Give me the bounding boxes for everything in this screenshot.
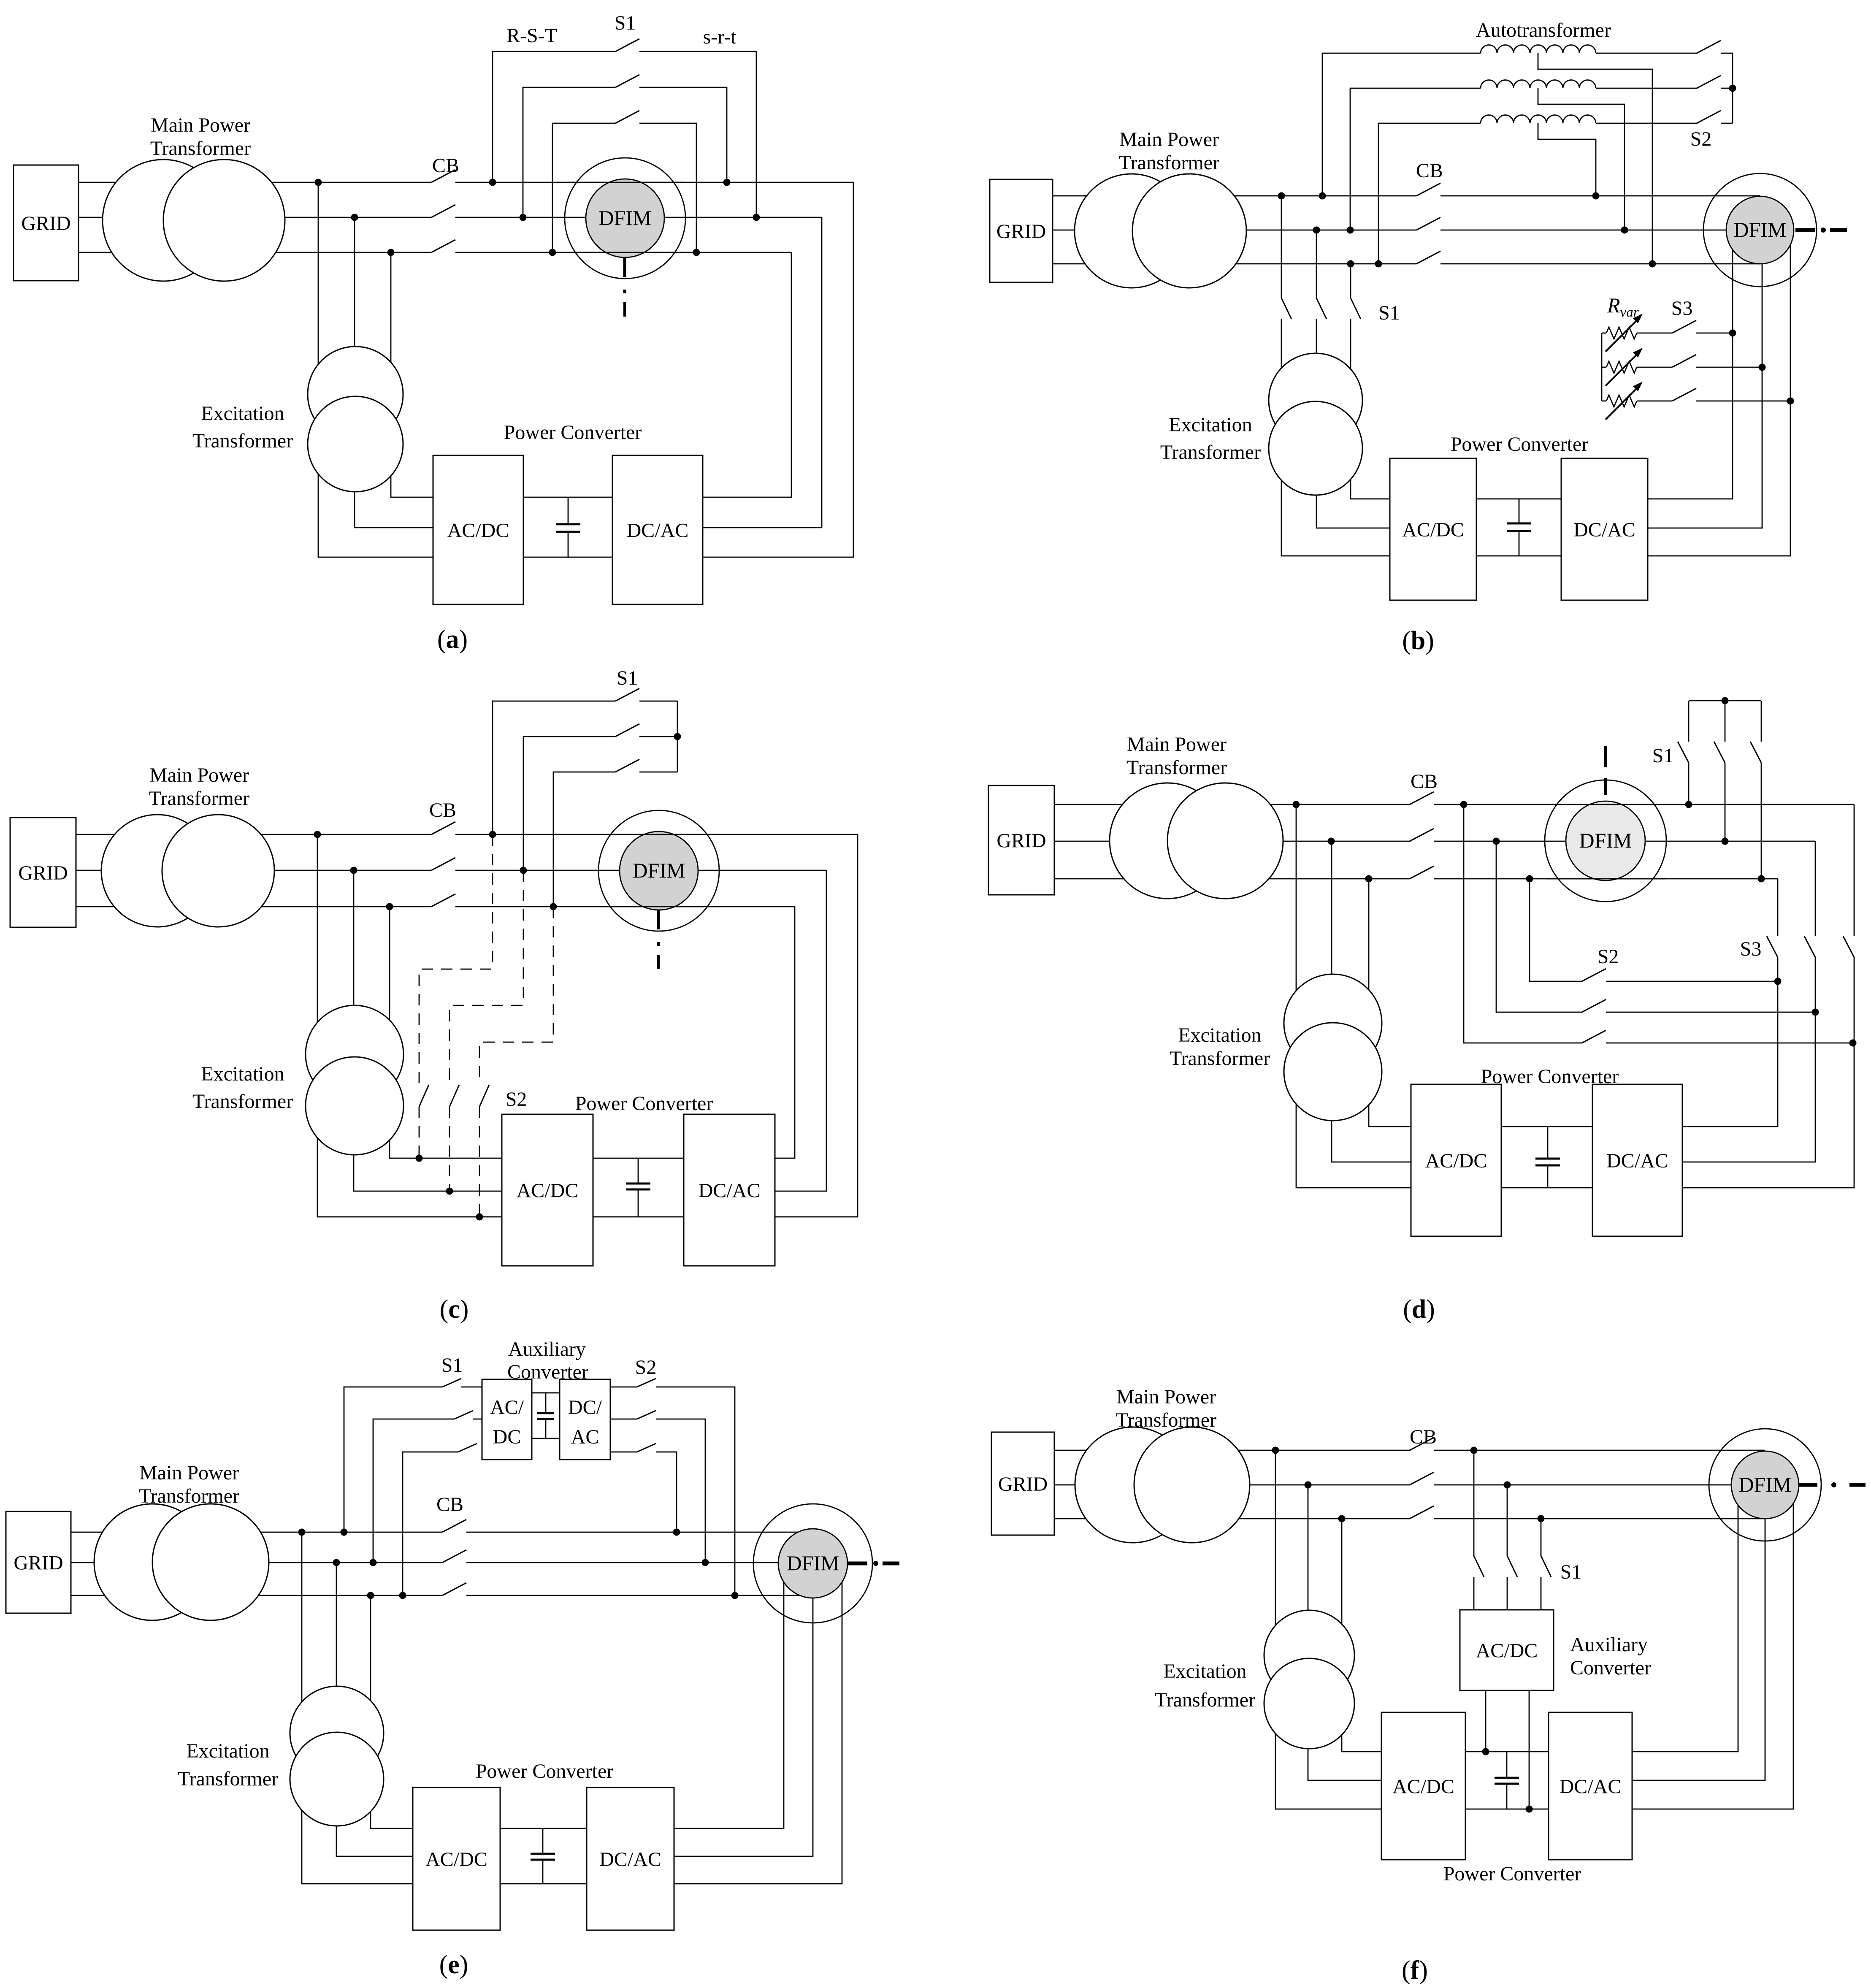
wire: S2 row3 from phase R (d)	[1464, 804, 1582, 1043]
wire: wrap lead phase R with switch S3 pole3 (d)	[1854, 804, 1855, 936]
svg-text:DC/AC: DC/AC	[1573, 519, 1635, 541]
node: w1 left on phase R (b)	[1319, 192, 1326, 200]
wire: bypass dashed phase T to S2 (c)	[479, 907, 553, 1085]
node: S1 row2 right on phase R (a)	[723, 179, 731, 186]
DFIM M-d rotor circle and shaft	[1566, 801, 1645, 880]
node: S2 pole2 on phase S (e)	[702, 1559, 709, 1566]
wire: bypass dashed pole1 to converter top input (c)	[419, 1107, 420, 1158]
svg-text:AC/DC: AC/DC	[1392, 1776, 1454, 1798]
svg-text:DC/AC: DC/AC	[699, 1180, 761, 1202]
DC-link capacitor (a)	[568, 497, 569, 524]
circuit breaker CB pole T (d)	[1410, 866, 1434, 879]
circuit breaker CB pole R (a)	[431, 170, 455, 182]
svg-text:Main Power: Main Power	[139, 1462, 239, 1484]
power converter DC/AC (b)	[1561, 458, 1648, 600]
node: S2 row1 left (d)	[1526, 875, 1533, 883]
node: tap3 on phase R (b)	[1592, 192, 1600, 200]
node: aux feed T (e)	[399, 1592, 406, 1599]
wire: rotor lead 2 (b)	[1648, 230, 1762, 528]
wire: excitation feeder T to AC/DC top input (a)	[391, 252, 433, 497]
wire: aux DC negative lead to DC bus (f)	[1529, 1690, 1530, 1809]
svg-text:S2: S2	[1598, 945, 1619, 968]
wire: S3 pole3 to rotor lead 3 (b)	[1696, 401, 1790, 402]
wire: aux feed phase R to S1 pole1 (e)	[344, 1387, 442, 1532]
wire: excitation feeder R down to AC/DC bottom input (e)	[302, 1532, 413, 1884]
svg-text:Main Power: Main Power	[1119, 128, 1219, 151]
switch S2 pole 2 (b)	[1697, 76, 1721, 88]
svg-text:DFIM: DFIM	[1738, 1473, 1791, 1496]
wire: w2 centre tap to phase S (b)	[1538, 88, 1625, 230]
wire: autotransformer w3 left lead to phase T (b)	[1378, 123, 1481, 264]
wire: excitation feeder T to AC/DC top input (e)	[371, 1595, 413, 1828]
wire: rotor lead 1 from DFIM to DC/AC (b)	[1648, 230, 1733, 499]
svg-text:S2: S2	[506, 1088, 527, 1110]
node: S1 row3 right on phase T (a)	[693, 249, 700, 256]
svg-text:CB: CB	[1411, 770, 1438, 793]
switch S3 pole 1 (b)	[1672, 320, 1696, 333]
wire: autotransformer w2 left lead to phase S (b)	[1350, 88, 1481, 230]
node: excitation tap phase T (e)	[367, 1592, 374, 1599]
switch S2 pole 3 (b)	[1697, 111, 1721, 123]
circuit breaker CB pole R (d)	[1410, 792, 1434, 804]
node: w2 left on phase S (b)	[1347, 227, 1354, 234]
auxiliary converter AC/DC (e)	[482, 1379, 532, 1460]
wire: DC bus top (d)	[1501, 1126, 1592, 1127]
wire: DC bus top (e)	[500, 1828, 587, 1829]
svg-text:Transformer: Transformer	[1119, 152, 1219, 174]
node: S1 row1 left on phase R (a)	[489, 179, 496, 186]
wire: DC bus bottom (b)	[1476, 555, 1561, 557]
node: excitation tap phase S (a)	[351, 214, 358, 221]
node: excitation tap phase R (f)	[1272, 1447, 1279, 1454]
main power transformer (a)	[103, 160, 224, 281]
wire: aux feed phase R with S1 pole1 (f)	[1473, 1450, 1475, 1556]
wire: w3 right lead (b)	[1596, 123, 1697, 124]
svg-text:S1: S1	[617, 667, 638, 689]
wire: rotor lead 3 (b)	[1648, 230, 1790, 556]
circuit breaker CB pole T (b)	[1416, 251, 1440, 264]
wire: S1 star bus (c)	[677, 701, 678, 772]
svg-text:AC/DC: AC/DC	[1425, 1150, 1487, 1172]
svg-text:Excitation: Excitation	[1169, 414, 1252, 436]
node: w3 left on phase T (b)	[1375, 260, 1382, 268]
svg-text:DFIM: DFIM	[598, 206, 651, 230]
node: excitation tap phase R (d)	[1293, 801, 1300, 808]
DFIM M-e rotor circle and shaft	[778, 1529, 848, 1598]
switch S1 pole 1 (d)	[1688, 701, 1690, 742]
wire: rotor lead 2 (f)	[1632, 1485, 1765, 1780]
svg-text:Excitation: Excitation	[1163, 1660, 1246, 1682]
svg-text:Main Power: Main Power	[149, 764, 249, 786]
wire: grid phase R (f)	[1054, 1450, 1410, 1451]
circuit breaker CB pole R (c)	[431, 822, 455, 834]
switch S2 pole 1 (b)	[1697, 41, 1721, 53]
svg-text:Auxiliary: Auxiliary	[1570, 1633, 1648, 1656]
node: bypass3 on converter input (c)	[476, 1213, 483, 1221]
wire: excitation feeder R down to AC/DC bottom input (a)	[318, 182, 433, 557]
GRID source (a)	[14, 165, 79, 281]
wire: rotor lead 1 from DFIM to DC/AC (a)	[703, 182, 853, 557]
auxiliary converter AC/DC box (f)	[1460, 1610, 1554, 1690]
svg-text:CB: CB	[436, 1493, 463, 1516]
subfigure (a): DFIM with stator phase-reversal switch S1	[0, 0, 0, 0]
svg-text:DFIM: DFIM	[1579, 829, 1632, 852]
svg-text:Transformer: Transformer	[192, 1090, 293, 1113]
node: S2 row2 right (d)	[1812, 1009, 1819, 1016]
wire: excitation feeder T to AC/DC top input (f)	[1342, 1519, 1381, 1752]
svg-text:Converter: Converter	[1570, 1657, 1651, 1679]
node: S1 row2 left on phase S (a)	[520, 214, 527, 221]
wire: w2 right lead (b)	[1596, 88, 1697, 89]
switch S3 pole 2 (b)	[1672, 355, 1696, 367]
wire: grid phase T (b)	[1053, 263, 1416, 265]
switch S1 pole 2 (c)	[523, 737, 615, 870]
wire: grid phase S (a)	[79, 217, 431, 218]
power converter AC/DC (e)	[413, 1788, 500, 1930]
svg-text:S1: S1	[615, 12, 636, 34]
svg-text:DFIM: DFIM	[632, 859, 685, 882]
circuit breaker CB pole S (d)	[1410, 829, 1434, 841]
circuit breaker CB pole S (a)	[431, 205, 455, 217]
svg-text:DC/AC: DC/AC	[599, 1848, 661, 1871]
wire: excitation feeder R with switch S1 pole1 (b)	[1281, 196, 1282, 298]
power converter DC/AC (f)	[1549, 1712, 1632, 1860]
excitation transformer (b)	[1269, 353, 1362, 447]
node: aux feed T (f)	[1538, 1515, 1545, 1522]
subfigure (e): DFIM with auxiliary converter starter S1/S2	[0, 0, 0, 0]
wire: bypass dashed phase S to S2 (c)	[449, 870, 523, 1085]
wire: excitation feeder R down to AC/DC bottom input (c)	[317, 834, 502, 1217]
variable rotor resistor Rvar phase 2 (b)	[1602, 367, 1606, 368]
DC-link capacitor (f)	[1506, 1752, 1508, 1778]
subfigure (b): DFIM with autotransformer starter	[0, 0, 0, 0]
wire: aux DC bus bottom (e)	[532, 1438, 560, 1439]
svg-text:Transformer: Transformer	[192, 430, 293, 452]
wire: aux output row3 with S2 pole3 to phase R (e)	[610, 1452, 637, 1453]
wire: S1 star bus (d)	[1689, 700, 1761, 701]
switch S1 pole 3 (d)	[1761, 701, 1762, 742]
wire: excitation feeder T to AC/DC top input (d)	[1369, 879, 1411, 1127]
node: excitation tap phase T (a)	[387, 249, 395, 256]
node: feeder S on phase S (b)	[1313, 227, 1320, 234]
DC-link capacitor (d)	[1547, 1127, 1549, 1159]
main power transformer (e)	[94, 1504, 211, 1620]
node: S2 row3 right (d)	[1849, 1040, 1857, 1047]
svg-text:AC/DC: AC/DC	[1476, 1640, 1538, 1662]
wire: aux DC positive lead to DC bus (f)	[1485, 1690, 1487, 1752]
svg-text:DFIM: DFIM	[786, 1551, 839, 1575]
DFIM M-c rotor circle and shaft	[620, 831, 698, 910]
svg-text:Transformer: Transformer	[1126, 756, 1227, 779]
node: feeder R on phase R (b)	[1278, 192, 1285, 200]
GRID source (d)	[988, 785, 1054, 895]
svg-text:AC/: AC/	[490, 1396, 524, 1419]
node: S1 pole1 on phase R (d)	[1685, 801, 1692, 808]
wire: S3 pole2 to rotor lead 2 (b)	[1696, 367, 1762, 368]
subfigure (d): DFIM with rotor/stator reconfiguration switches S1 S2 S3	[0, 0, 0, 0]
wire: grid phase T (c)	[76, 906, 431, 907]
wire: S3 pole1 to rotor lead 1 (b)	[1696, 333, 1733, 334]
svg-text:Power Converter: Power Converter	[1481, 1065, 1619, 1088]
svg-text:CB: CB	[1410, 1426, 1437, 1448]
wire: grid phase T (e)	[71, 1595, 442, 1596]
autotransformer winding 1 (b)	[1481, 45, 1596, 54]
wire: rotor lead 3 (e)	[674, 1563, 842, 1884]
wire: aux feed phase T to S1 pole3 (e)	[403, 1452, 458, 1595]
svg-text:(f): (f)	[1402, 1956, 1428, 1985]
wire: w1 right lead (b)	[1596, 53, 1697, 54]
svg-text:R-S-T: R-S-T	[506, 24, 557, 47]
DFIM M-f rotor circle and shaft	[1731, 1451, 1799, 1519]
circuit breaker CB pole T (f)	[1410, 1506, 1434, 1519]
wire: aux feed phase S to S1 pole2 (e)	[373, 1419, 454, 1563]
svg-text:DC/AC: DC/AC	[1560, 1776, 1622, 1798]
wire: grid phase T (d)	[1054, 878, 1410, 880]
svg-text:GRID: GRID	[21, 212, 70, 235]
excitation transformer (e)	[290, 1686, 384, 1780]
switch S1 pole 2 (d)	[1725, 701, 1726, 742]
wire: excitation feeder S through excitation transformer (e)	[336, 1563, 413, 1856]
svg-text:AC/DC: AC/DC	[447, 520, 509, 542]
node: excitation tap phase R (e)	[298, 1529, 306, 1536]
node: excitation tap phase S (e)	[333, 1559, 340, 1566]
wire: rotor lead 1 from DFIM to DC/AC (c)	[775, 834, 858, 1217]
node: excitation tap phase R (c)	[314, 831, 321, 838]
wire: S2 pole2 to common bus (b)	[1721, 88, 1733, 89]
svg-text:S3: S3	[1740, 938, 1762, 960]
subfigure (c): DFIM with converter bypass S2 (dashed) and stator short S1	[0, 0, 0, 0]
node: rotor lead1 / S3 (b)	[1729, 330, 1736, 337]
DFIM M-b rotor circle and shaft	[1726, 196, 1794, 264]
svg-text:S3: S3	[1671, 297, 1693, 320]
circuit breaker CB pole R (b)	[1416, 183, 1440, 196]
switch S2 pole 1 (c)	[419, 1085, 429, 1107]
wire: aux output row1 with S2 pole1 to phase T (e)	[610, 1387, 637, 1388]
node: rotor lead2 / S3 (b)	[1759, 364, 1766, 371]
node: excitation tap phase T (c)	[386, 903, 393, 910]
node: S1 bus mid (d)	[1722, 697, 1729, 704]
GRID source (f)	[991, 1432, 1054, 1535]
wire: grid phase S (d)	[1054, 841, 1410, 842]
svg-text:Excitation: Excitation	[201, 402, 284, 425]
circuit breaker CB pole T (c)	[431, 894, 455, 907]
DC-link capacitor (c)	[638, 1158, 639, 1184]
node: aux feed R (e)	[341, 1529, 348, 1536]
svg-text:Transformer: Transformer	[149, 787, 249, 810]
wire: grid phase R (a) from GRID through CB to rotor drop	[79, 182, 431, 183]
wire: rotor lead 3 (a)	[703, 252, 791, 497]
wire: bypass dashed phase R to S2 (c)	[419, 834, 493, 1085]
switch S2 pole 3 (c)	[479, 1085, 489, 1107]
svg-text:GRID: GRID	[18, 862, 68, 884]
node: aux feed R (f)	[1470, 1447, 1478, 1454]
wire: excitation feeder T with switch S1 pole3 (b)	[1350, 264, 1351, 298]
GRID source (c)	[10, 818, 76, 927]
node: aux negative on bus (f)	[1526, 1806, 1533, 1813]
node: S1 row1 right on phase S (a)	[753, 214, 760, 221]
switch S1 pole 3 (c)	[553, 772, 615, 907]
wire: S2 pole1 to common bus (b)	[1721, 53, 1733, 54]
node: S2 pole1 on phase T (e)	[731, 1592, 739, 1599]
wire: excitation feeder S through excitation transformer (d)	[1332, 841, 1411, 1162]
svg-text:Transformer: Transformer	[1160, 441, 1261, 463]
node: S1 row3 left on phase T (a)	[549, 249, 556, 256]
svg-text:(e): (e)	[439, 1950, 468, 1979]
power converter AC/DC (b)	[1390, 458, 1476, 600]
wire: bypass dashed pole2 to converter mid input (c)	[449, 1107, 450, 1191]
node: bypass2 on converter input (c)	[446, 1188, 453, 1195]
wire: excitation feeder S through excitation transformer (a)	[355, 217, 433, 528]
circuit breaker CB pole S (c)	[431, 858, 455, 870]
wire: rotor lead 2 (c)	[775, 870, 826, 1191]
circuit breaker CB pole R (f)	[1410, 1438, 1434, 1450]
power converter DC/AC (a)	[612, 455, 703, 604]
svg-text:(d): (d)	[1403, 1295, 1435, 1324]
wire: grid phase S (e)	[71, 1562, 442, 1563]
switch S1 row 3 (a)	[552, 123, 615, 252]
svg-text:Transformer: Transformer	[1155, 1689, 1255, 1711]
wire: S2 row2 from phase S (d)	[1496, 841, 1582, 1012]
svg-text:Power Converter: Power Converter	[1443, 1863, 1581, 1885]
node: tap1 on phase T (b)	[1649, 260, 1656, 268]
circuit breaker CB pole S (f)	[1410, 1472, 1434, 1485]
svg-text:GRID: GRID	[996, 830, 1046, 852]
node: aux feed S (e)	[370, 1559, 377, 1566]
wire: rotor lead 2 (a)	[703, 217, 822, 528]
svg-text:Autotransformer: Autotransformer	[1476, 19, 1611, 41]
svg-text:CB: CB	[1416, 160, 1443, 182]
node: S2 row1 right (d)	[1774, 978, 1782, 985]
excitation transformer (a)	[308, 347, 403, 442]
wire: grid phase R (e)	[71, 1532, 442, 1533]
node: S2 row3 left (d)	[1460, 801, 1468, 808]
wire: DC bus top (f)	[1465, 1751, 1549, 1752]
svg-text:Power Converter: Power Converter	[476, 1760, 614, 1782]
main power transformer (d)	[1110, 783, 1225, 899]
svg-text:s-r-t: s-r-t	[703, 26, 736, 48]
svg-text:Transformer: Transformer	[1116, 1409, 1216, 1431]
node: excitation tap phase R (a)	[315, 179, 322, 186]
excitation transformer (f)	[1264, 1610, 1354, 1701]
subfigure (f): DFIM with auxiliary rotor-side converter S1	[0, 0, 0, 0]
wire: DC bus bottom (a)	[523, 557, 612, 558]
circuit breaker CB pole S (b)	[1416, 217, 1440, 230]
wire: DC bus bottom (e)	[500, 1883, 587, 1885]
wire: rotor lead 1 from DFIM to DC/AC (e)	[674, 1563, 784, 1828]
svg-text:DFIM: DFIM	[1733, 218, 1786, 241]
svg-text:Transformer: Transformer	[139, 1485, 239, 1507]
svg-text:DC/AC: DC/AC	[627, 520, 689, 542]
wire: aux output row2 with S2 pole2 to phase S (e)	[610, 1419, 637, 1420]
svg-text:AC: AC	[571, 1426, 599, 1448]
GRID source (b)	[990, 179, 1053, 282]
svg-text:AC/DC: AC/DC	[425, 1848, 487, 1871]
power converter AC/DC (c)	[502, 1114, 593, 1266]
svg-text:GRID: GRID	[14, 1552, 63, 1574]
svg-text:Power Converter: Power Converter	[504, 421, 642, 444]
node: S2 row2 left (d)	[1493, 838, 1500, 845]
svg-text:(b): (b)	[1402, 626, 1434, 655]
wire: S2 star-point bus (b)	[1732, 53, 1733, 123]
circuit breaker CB pole R (e)	[442, 1519, 466, 1532]
circuit breaker CB pole T (e)	[442, 1583, 466, 1595]
svg-text:(c): (c)	[440, 1295, 469, 1324]
wire: grid phase R (c)	[76, 834, 431, 835]
svg-text:S1: S1	[1378, 302, 1400, 324]
node: S1 pole2 on phase S (d)	[1722, 838, 1729, 845]
wire: w3 centre tap to phase R (b)	[1538, 123, 1596, 196]
node: aux feed S (f)	[1504, 1482, 1511, 1489]
wire: excitation feeder R down to AC/DC bottom input (d)	[1296, 804, 1411, 1188]
DFIM M-a rotor circle and shaft	[586, 179, 664, 257]
DFIM M-c stator housing (outer circle)	[598, 810, 719, 931]
DFIM M-b stator housing (outer circle)	[1703, 173, 1817, 287]
main power transformer (b)	[1075, 174, 1189, 288]
wire: grid phase T (a)	[79, 252, 431, 253]
node: bypass1 on converter input (c)	[416, 1155, 423, 1162]
svg-text:DC/: DC/	[568, 1396, 602, 1419]
wire: excitation feeder S through excitation transformer (f)	[1308, 1485, 1381, 1780]
node: S2 bus mid (b)	[1729, 85, 1736, 92]
svg-text:CB: CB	[429, 799, 456, 821]
wire: rotor lead 3 (f)	[1632, 1485, 1793, 1809]
switch S1 row 2 (a)	[523, 87, 615, 217]
power converter DC/AC (d)	[1592, 1084, 1682, 1236]
switch S3 pole 3 (b)	[1672, 388, 1696, 401]
node: feeder T on phase T (b)	[1347, 260, 1354, 268]
node: tap2 on phase S (b)	[1621, 227, 1628, 234]
node: excitation tap phase T (f)	[1338, 1515, 1346, 1522]
node: S1 pole3 on phase T (d)	[1758, 875, 1765, 883]
svg-text:Transformer: Transformer	[150, 137, 251, 160]
wire: grid phase S (f)	[1054, 1484, 1410, 1486]
autotransformer winding 3 (b)	[1481, 115, 1596, 124]
wire: bypass dashed pole3 to converter bottom input (c)	[479, 1107, 480, 1217]
DFIM M-a stator housing (outer circle)	[565, 158, 685, 279]
wire: aux DC bus top (e)	[532, 1392, 560, 1394]
wire: aux feed phase T with S1 pole3 (f)	[1541, 1519, 1542, 1556]
svg-text:Main Power: Main Power	[151, 114, 250, 136]
switch S2 pole 2 (c)	[449, 1085, 459, 1107]
node: excitation tap phase S (f)	[1305, 1482, 1312, 1489]
svg-text:S1: S1	[1652, 745, 1674, 767]
node: excitation tap phase T (d)	[1365, 875, 1373, 883]
node: S1 pole3 on phase T (c)	[550, 903, 557, 910]
wire: grid phase R (d)	[1054, 804, 1410, 805]
DFIM M-d stator housing (outer circle)	[1545, 780, 1666, 902]
wire: excitation feeder T to AC/DC top input (c)	[390, 907, 502, 1158]
DC-link capacitor (b)	[1519, 499, 1520, 523]
svg-text:GRID: GRID	[996, 220, 1046, 243]
svg-text:GRID: GRID	[998, 1473, 1048, 1495]
node: S1 pole2 on phase S (c)	[520, 867, 527, 874]
excitation transformer (c)	[306, 1005, 403, 1103]
svg-text:Excitation: Excitation	[186, 1740, 269, 1762]
aux DC-link capacitor (e)	[545, 1393, 547, 1413]
node: aux positive on bus (f)	[1482, 1748, 1489, 1755]
svg-text:Auxiliary: Auxiliary	[508, 1338, 586, 1360]
wire: DC bus bottom (c)	[593, 1216, 684, 1218]
svg-text:Rvar: Rvar	[1607, 293, 1639, 320]
wire: grid phase R (b)	[1053, 195, 1416, 197]
svg-text:DC: DC	[493, 1426, 521, 1448]
wire: S2 row1 from phase T (d)	[1530, 879, 1582, 981]
wire: rotor lead 3 (c)	[775, 907, 795, 1158]
power converter AC/DC (a)	[433, 455, 523, 604]
svg-text:Excitation: Excitation	[201, 1063, 284, 1085]
svg-text:AC/DC: AC/DC	[1402, 519, 1464, 541]
svg-text:(a): (a)	[437, 625, 468, 654]
